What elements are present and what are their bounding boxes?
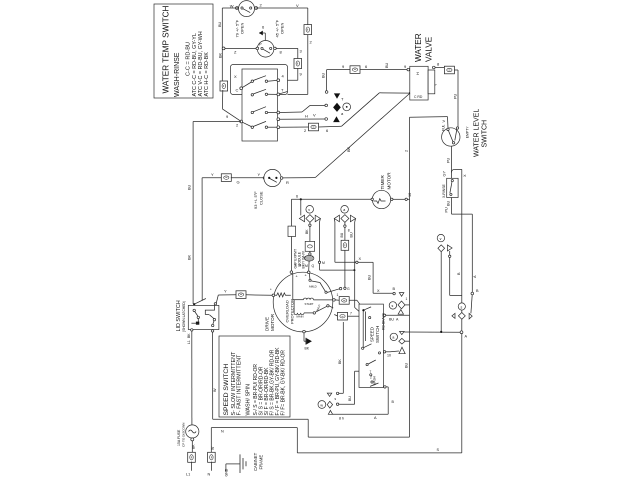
temp switch left terminal 2 — [226, 114, 251, 128]
svg-text:P: P — [259, 42, 262, 47]
svg-text:CP TO DISCONN: CP TO DISCONN — [182, 423, 186, 447]
wire V2 long vertical — [457, 169, 462, 453]
spin indicator cluster C6 on V2 — [452, 303, 472, 319]
svg-text:2: 2 — [405, 150, 409, 152]
svg-text:10: 10 — [408, 193, 412, 197]
connector box on C2 wire — [341, 240, 349, 250]
water valve label — [414, 33, 434, 62]
svg-text:START: START — [305, 302, 314, 306]
svg-text:SWITCH: SWITCH — [482, 120, 489, 148]
wire below connector to motor — [290, 237, 292, 271]
wire pair4 out through CO — [280, 127, 311, 133]
motor top terminals — [290, 264, 310, 279]
svg-text:PU: PU — [445, 207, 449, 213]
wire into temp switch box right — [288, 93, 308, 95]
ground symbol — [240, 454, 246, 473]
wire oval to motor top — [305, 261, 315, 271]
wire speed switch bottom out to W_D — [384, 386, 395, 415]
wire W_D bottom row — [333, 414, 389, 420]
thermostat 2 (rinse temp) — [256, 41, 276, 58]
junction at water valve bottom — [409, 92, 411, 94]
svg-text:BU: BU — [385, 62, 389, 68]
svg-text:BK: BK — [347, 146, 351, 152]
svg-text:15A FUSE: 15A FUSE — [177, 429, 181, 446]
svg-text:BU: BU — [405, 362, 409, 368]
svg-text:3: 3 — [295, 264, 297, 268]
wire D1 diagonal up to water valve — [319, 93, 411, 133]
motor internal main winding and switch — [294, 300, 333, 319]
svg-text:BK: BK — [305, 229, 309, 234]
svg-text:4: 4 — [300, 264, 302, 268]
wire right vertical — [307, 8, 309, 25]
wire circle1 left to corner — [222, 7, 238, 9]
svg-text:BK: BK — [338, 359, 342, 364]
agitate indicator cluster C7 — [437, 234, 452, 251]
temp switch contact pair 3 — [251, 107, 280, 114]
wire lid switch to CO row — [216, 295, 218, 303]
wire speed switch out2 to cluster C5 — [383, 351, 399, 358]
speed switch legend box — [219, 336, 290, 417]
svg-text:7: 7 — [350, 312, 352, 316]
svg-text:C RD: C RD — [414, 95, 423, 99]
connector CO — [221, 174, 231, 182]
water valve mix indicator circle — [343, 103, 351, 111]
connector CO on right vertical — [304, 25, 312, 35]
svg-text:8 h: 8 h — [339, 417, 344, 421]
svg-text:OPEN: OPEN — [280, 23, 285, 34]
ground wire — [225, 464, 240, 477]
svg-text:WATER TEMP SWITCH: WATER TEMP SWITCH — [162, 5, 171, 93]
svg-text:Y: Y — [224, 289, 227, 294]
wire W_B neutral branch corner — [211, 428, 215, 453]
svg-text:w: w — [320, 403, 323, 407]
svg-text:FUL: FUL — [442, 124, 446, 131]
wire W_E from V1 top to water level switch — [410, 117, 449, 129]
svg-text:MAIN: MAIN — [297, 315, 304, 319]
wire timer row left corner — [202, 172, 222, 178]
svg-text:BK: BK — [305, 347, 310, 351]
svg-text:V: V — [313, 113, 316, 118]
svg-text:93 +/- 5°F: 93 +/- 5°F — [253, 191, 258, 209]
svg-text:SPEED SWITCH: SPEED SWITCH — [223, 364, 230, 416]
wire W_C horizontal — [404, 331, 467, 339]
svg-text:s: s — [392, 304, 394, 308]
svg-text:FRAME: FRAME — [259, 455, 264, 470]
svg-text:s: s — [461, 305, 463, 309]
svg-text:G: G — [237, 180, 240, 185]
svg-text:Q: Q — [312, 264, 315, 268]
motor left terminal and overload zigzag — [270, 287, 291, 297]
wire below CO — [221, 90, 223, 109]
svg-text:GY: GY — [443, 171, 447, 177]
svg-text:H: H — [415, 72, 420, 75]
wire below CO — [297, 68, 299, 80]
cap expmt module label — [294, 249, 306, 269]
wire arc branch to V2 — [452, 169, 468, 177]
wire C4 top triangle to BK vertical — [338, 322, 343, 393]
direction cluster C5 — [390, 332, 409, 354]
svg-text:10: 10 — [387, 354, 391, 358]
wire to thermostat 2 — [222, 47, 256, 55]
water valve thermo arrow T — [334, 93, 344, 101]
wire hot inlet to valve — [327, 64, 350, 70]
svg-text:GND: GND — [225, 468, 229, 476]
direction cluster C2 — [334, 206, 355, 223]
connector CO — [350, 66, 360, 74]
timer motor label — [380, 172, 392, 190]
svg-text:SWITCH: SWITCH — [375, 326, 380, 343]
svg-text:2: 2 — [370, 376, 372, 380]
wire below CO down — [307, 35, 309, 95]
lid switch bottom right terminal — [211, 330, 213, 332]
wire V1 long vertical — [405, 117, 410, 437]
wire speed switch left lower to cluster C4 — [336, 371, 359, 405]
wire diagonal to temp switch terminal 2 — [222, 109, 241, 121]
svg-text:V: V — [296, 3, 299, 8]
wire V4 down to water level switch — [454, 70, 459, 128]
svg-text:MOTOR: MOTOR — [270, 313, 275, 331]
svg-text:L1: L1 — [187, 340, 191, 344]
water temp switch outer box — [231, 65, 288, 95]
temp switch contact pair 1 — [234, 74, 285, 83]
wire V3 vertical — [471, 214, 479, 295]
direction cluster C4 — [318, 392, 339, 414]
pressure switch box — [442, 178, 458, 198]
wire timer row — [292, 193, 412, 201]
start relay oval — [305, 255, 314, 261]
water valve arrow a — [333, 111, 344, 122]
wire water level switch down to pressure switch — [443, 146, 452, 178]
connector box on motor feed — [288, 226, 296, 236]
lid switch internals — [191, 305, 215, 326]
fuse — [186, 425, 199, 449]
svg-text:SPEED: SPEED — [370, 327, 375, 342]
svg-text:6: 6 — [296, 195, 298, 199]
svg-text:PU: PU — [447, 157, 451, 163]
wire CO to valve — [360, 62, 410, 70]
lid switch label — [176, 300, 186, 332]
svg-text:1: 1 — [337, 293, 339, 297]
wire thermostat2 right to corner — [276, 48, 302, 54]
svg-text:W: W — [213, 388, 217, 392]
svg-text:X: X — [234, 74, 237, 79]
wire left main vertical from terminal2 — [188, 122, 242, 304]
svg-text:AMLD: AMLD — [309, 284, 317, 288]
wire left vertical top — [221, 8, 223, 82]
motor bottom ground — [303, 330, 312, 350]
svg-text:M: M — [322, 261, 325, 265]
svg-text:B: B — [457, 272, 461, 275]
connector CO L1 — [188, 452, 196, 462]
wire CO to N — [208, 462, 212, 477]
svg-text:8: 8 — [348, 229, 350, 233]
direction cluster C1 — [299, 206, 320, 223]
svg-text:v: v — [308, 208, 310, 212]
svg-text:CLOSE: CLOSE — [259, 191, 264, 205]
temp switch contact pair 4 — [251, 121, 280, 128]
thermostat 1 label — [235, 19, 245, 37]
svg-text:C: C — [236, 88, 239, 93]
junction timer row — [300, 198, 302, 200]
junction V2 x W_C — [460, 331, 463, 334]
svg-text:N: N — [221, 430, 224, 434]
wire C1 branch down — [300, 199, 302, 215]
svg-text:WATER: WATER — [414, 33, 423, 62]
wire corner down to CO — [297, 48, 299, 58]
drive motor label — [265, 313, 276, 331]
lid switch top right terminal — [214, 303, 216, 305]
svg-text:A: A — [473, 275, 477, 278]
lid switch box — [188, 305, 219, 329]
wire left to inner box terminal — [280, 79, 298, 81]
drive motor circle — [273, 272, 333, 332]
svg-text:BK: BK — [219, 52, 223, 58]
wire terminal row3b to solenoid C terminal — [280, 114, 325, 120]
wire C2 right triangle down to speed switch — [350, 219, 360, 312]
wire below capacitor — [309, 251, 311, 255]
svg-text:CABINET: CABINET — [253, 452, 258, 471]
svg-text:PU: PU — [454, 93, 458, 99]
svg-text:a: a — [392, 336, 394, 340]
svg-text:BU: BU — [447, 200, 451, 206]
thermostat 1 (wash temp, top) — [230, 1, 299, 17]
svg-text:Y: Y — [258, 172, 261, 177]
thermostat 3 label — [253, 191, 264, 209]
wire CO to motor left — [246, 294, 272, 297]
water temp switch legend box — [154, 4, 213, 98]
connector CO — [294, 59, 302, 69]
temp switch right terminal row3b — [277, 118, 280, 121]
motor internal start winding — [293, 273, 335, 306]
wire W_B neutral long run to V2 — [211, 428, 461, 453]
wire circle1 right along top — [256, 7, 308, 9]
svg-text:N: N — [208, 473, 211, 477]
svg-text:X-RINSE: X-RINSE — [442, 184, 446, 198]
wire motor feed down from timer row — [291, 199, 293, 226]
thermostat 2 bleed arrow — [259, 25, 265, 41]
svg-text:ATC H-C = RD-BK: ATC H-C = RD-BK — [204, 52, 210, 97]
svg-text:WASH/ SPIN: WASH/ SPIN — [246, 384, 252, 416]
water temp switch inner box — [242, 69, 278, 141]
svg-text:F/ F= BR-BK, GY-BK/ RD-OR: F/ F= BR-BK, GY-BK/ RD-OR — [281, 350, 287, 416]
water level switch label — [474, 109, 489, 157]
svg-text:DRIVE: DRIVE — [265, 317, 270, 331]
svg-text:BU: BU — [218, 21, 222, 27]
svg-text:BU: BU — [322, 72, 326, 78]
lid switch bottom left terminal — [191, 329, 193, 331]
svg-text:7: 7 — [370, 370, 372, 374]
svg-text:BU: BU — [389, 318, 394, 322]
wire C2 diamond down through CO — [340, 222, 350, 240]
water valve diamond — [333, 103, 341, 112]
wire lid switch down to fuse — [187, 331, 192, 425]
capacitor box — [305, 241, 314, 251]
wire Va from C7 diamond down — [440, 252, 442, 332]
direction cluster C3 — [389, 293, 409, 315]
motor centrifugal switch AMLD — [309, 274, 340, 294]
svg-text:R: R — [286, 180, 289, 185]
wire fuse to CO — [191, 441, 193, 453]
svg-text:(SHOWN LATCHED): (SHOWN LATCHED) — [182, 301, 186, 332]
speed switch box — [359, 304, 385, 387]
temp switch left terminal c — [236, 82, 252, 93]
wire thermostat3 right to D2 — [283, 177, 315, 179]
wire branch vertical to lid switch blade — [201, 178, 203, 301]
svg-text:OPEN: OPEN — [240, 23, 245, 34]
wire Vb from C7 triangle down then to V2 — [449, 251, 462, 295]
svg-text:C-C = RD-BU: C-C = RD-BU — [186, 42, 192, 76]
svg-text:v: v — [440, 237, 442, 241]
connector CO — [309, 123, 319, 131]
svg-text:WATER LEVEL: WATER LEVEL — [474, 109, 481, 157]
wire valve inlet corner down — [322, 70, 328, 94]
connector CO on left vertical — [220, 81, 228, 91]
connector CO N — [208, 452, 216, 462]
thermostat 2 label — [275, 19, 285, 37]
svg-text:1: 1 — [406, 297, 408, 301]
wire CO to L1 — [186, 462, 192, 477]
svg-text:a: a — [343, 208, 345, 212]
svg-text:MOTOR: MOTOR — [387, 172, 392, 190]
timer motor — [372, 190, 390, 208]
connector CO — [236, 291, 246, 299]
wire D2 diagonal valve to rinse thermostat — [315, 93, 410, 178]
svg-text:H: H — [305, 114, 308, 119]
svg-text:BU: BU — [350, 232, 354, 238]
terminal circles at valve solenoid column — [325, 104, 328, 120]
svg-text:BU: BU — [340, 232, 344, 237]
svg-text:BU: BU — [368, 274, 372, 280]
wire C1 diamond down through cap — [305, 222, 311, 241]
cabinet frame label — [253, 452, 264, 471]
wire pressure switch bottom to V3 — [445, 198, 473, 215]
overload protector label — [285, 299, 295, 324]
svg-text:L1: L1 — [186, 473, 190, 477]
wire valve outlet right to CO — [433, 62, 445, 69]
temp switch contact pair 2 — [251, 88, 287, 97]
thermostat 3 (93F close) — [264, 169, 289, 186]
connector CO — [444, 66, 454, 74]
wire C1 right triangle to main terminal — [318, 219, 355, 272]
junction at lid switch top — [193, 303, 195, 305]
speed switch contacts — [362, 307, 381, 387]
wire below CO to motor area — [339, 250, 350, 291]
lid switch blade outside — [194, 299, 206, 305]
svg-text:BK: BK — [187, 333, 191, 338]
wire speed switch out1 to V1 — [383, 314, 409, 321]
svg-text:BK: BK — [188, 254, 192, 260]
wire motor start out through CO1 to speed switch — [339, 297, 349, 305]
svg-text:VALVE: VALVE — [425, 36, 434, 62]
wire W_A lid switch to V1 bottom — [213, 332, 410, 437]
fuse label — [177, 423, 186, 447]
wire V3 stub to cluster — [471, 295, 472, 314]
svg-text:M: M — [305, 264, 308, 268]
svg-text:G: G — [347, 287, 350, 291]
svg-text:BU: BU — [348, 396, 352, 401]
svg-text:BU: BU — [188, 184, 192, 190]
svg-text:Y: Y — [211, 172, 214, 177]
wire motor main out through CO2 to speed switch — [338, 312, 348, 320]
wire lid CO row to motor — [218, 289, 236, 296]
svg-text:TIMER: TIMER — [380, 175, 385, 190]
wire CO to wash thermostat — [231, 172, 266, 185]
svg-text:EMPTY: EMPTY — [466, 126, 470, 138]
svg-text:WASH-RINSE: WASH-RINSE — [174, 52, 181, 97]
svg-text:F- FAST INTERMITTENT: F- FAST INTERMITTENT — [237, 354, 243, 416]
water level switch — [442, 124, 470, 146]
water valve box — [410, 66, 438, 100]
wire C2 left triangle L-path to C3 — [334, 219, 395, 295]
wire pair3 to solenoid H terminal — [280, 105, 325, 117]
